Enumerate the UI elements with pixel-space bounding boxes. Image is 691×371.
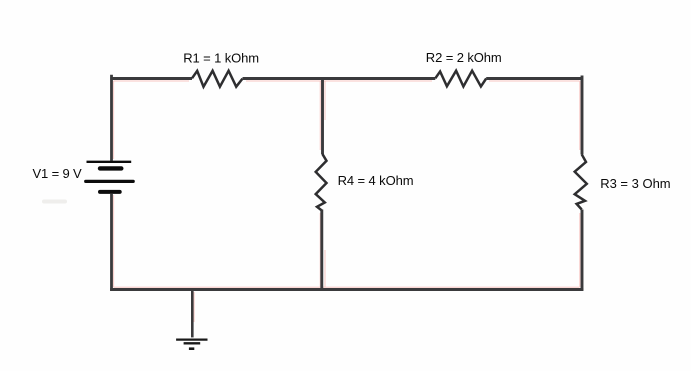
wire bottom segment (110, 287, 583, 289)
wire right vertical lower (580, 210, 582, 291)
resistor R3 (575, 154, 587, 209)
wire middle vertical lower (320, 210, 325, 291)
resistor R4 (316, 154, 327, 211)
wire top-right segment (486, 79, 583, 82)
battery V1 plate 1 (87, 161, 132, 163)
svg-text:R2 = 2 kOhm: R2 = 2 kOhm (426, 50, 502, 65)
resistor R1 (192, 71, 243, 87)
svg-text:V1 = 9 V: V1 = 9 V (33, 166, 83, 181)
ground bar 3 (189, 347, 194, 350)
wire left vertical upper (112, 75, 114, 161)
battery V1 plate 3 (86, 180, 134, 183)
wire right vertical upper (580, 76, 582, 155)
wire ground stem (192, 290, 194, 337)
wire top-middle segment (243, 79, 436, 82)
wire middle vertical upper (320, 77, 325, 154)
wire left vertical lower (112, 194, 114, 291)
battery V1 plate 4 (100, 190, 120, 194)
wire top-left segment (110, 79, 192, 82)
svg-text:R4 = 4 kOhm: R4 = 4 kOhm (338, 173, 414, 188)
battery V1 plate 2 (100, 166, 121, 170)
resistor R2 (435, 71, 486, 87)
ground bar 1 (176, 338, 207, 340)
svg-text:R3 = 3 Ohm: R3 = 3 Ohm (600, 176, 670, 191)
svg-text:R1 = 1 kOhm: R1 = 1 kOhm (183, 50, 259, 65)
ground bar 2 (184, 342, 201, 344)
